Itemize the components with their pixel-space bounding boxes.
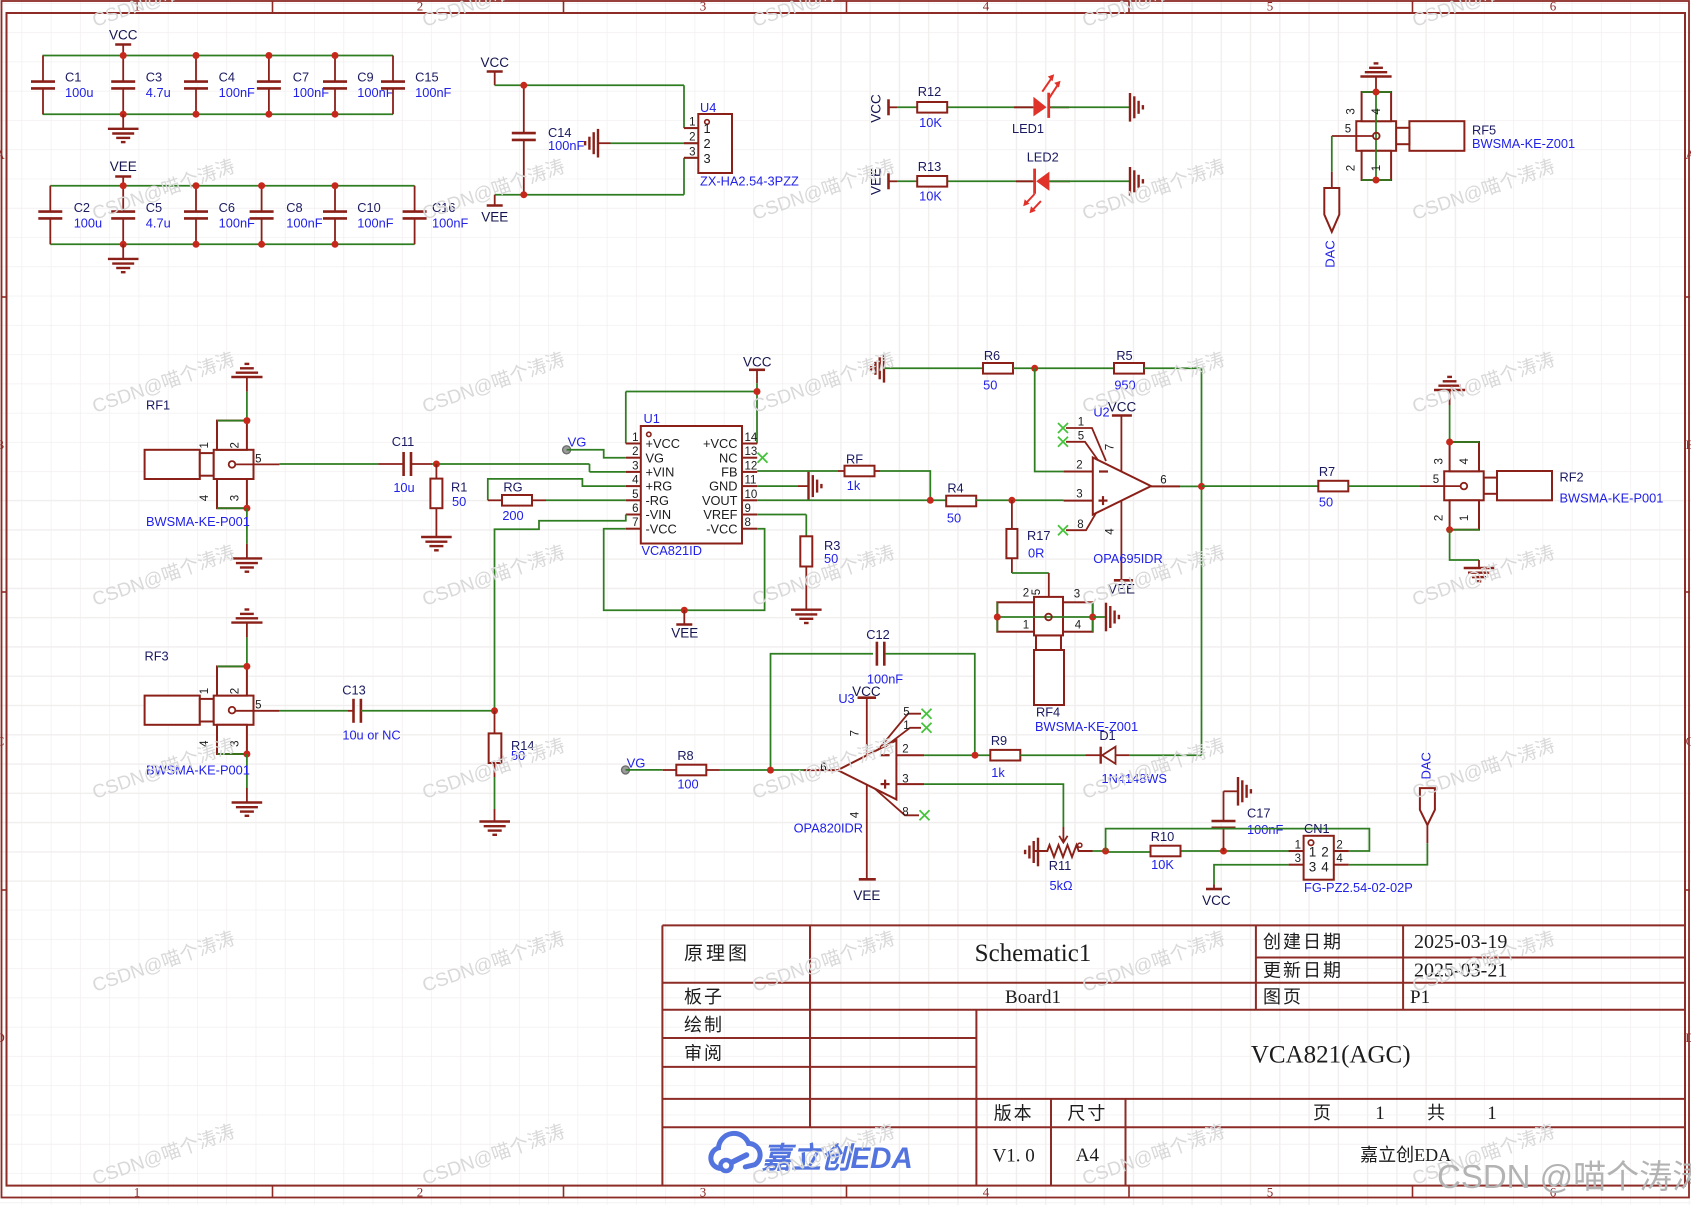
ground (VCC bank) — [122, 114, 124, 129]
capacitor C15 — [392, 56, 394, 82]
connector RF3 body — [145, 696, 200, 725]
svg-text:VCA821ID: VCA821ID — [642, 543, 702, 558]
svg-text:BWSMA-KE-Z001: BWSMA-KE-Z001 — [1035, 719, 1138, 734]
svg-text:CSDN@喵个涛涛: CSDN@喵个涛涛 — [419, 1120, 567, 1189]
resistor R6 — [983, 363, 1013, 374]
svg-text:100nF: 100nF — [548, 138, 584, 153]
svg-text:CSDN@喵个涛涛: CSDN@喵个涛涛 — [749, 927, 897, 996]
svg-text:ZX-HA2.54-3PZZ: ZX-HA2.54-3PZZ — [700, 174, 799, 189]
svg-text:R6: R6 — [984, 348, 1000, 363]
junction dots RF2 — [1446, 439, 1453, 446]
junction R8/C12 — [767, 767, 774, 774]
capacitor C5 — [122, 186, 124, 212]
RF2 pin5 circle — [1461, 483, 1468, 490]
svg-text:CSDN@喵个涛涛: CSDN@喵个涛涛 — [1079, 1120, 1227, 1189]
ground (C17) — [1237, 777, 1239, 806]
resistor R10 — [1151, 846, 1181, 857]
wire VCC rail top — [43, 55, 394, 57]
wire U1 VREF to R3 — [757, 514, 806, 516]
svg-text:7: 7 — [632, 517, 638, 529]
svg-text:10: 10 — [745, 489, 758, 501]
svg-text:原理图: 原理图 — [684, 944, 750, 965]
svg-text:CN1: CN1 — [1304, 821, 1330, 836]
wire VEE rail top — [50, 185, 414, 187]
potentiometer R11 — [1062, 827, 1064, 841]
svg-text:Board1: Board1 — [1005, 987, 1061, 1008]
no-connect U2 pins — [1058, 423, 1068, 433]
junction VOUT/RF — [927, 497, 934, 504]
net flag DAC (RF5) — [1331, 172, 1333, 188]
ground (LED1) — [1129, 93, 1131, 122]
svg-text:VOUT: VOUT — [702, 493, 738, 508]
svg-text:4.7u: 4.7u — [146, 216, 171, 231]
junction R4/R17 — [1008, 497, 1015, 504]
wire R6 node to U2 pin2 — [1035, 368, 1064, 471]
svg-text:100nF: 100nF — [219, 216, 255, 231]
power flag VCC (U3) — [858, 696, 877, 699]
svg-text:LED2: LED2 — [1027, 150, 1059, 165]
title block grid — [661, 925, 663, 1185]
ground (RF3 top) — [231, 621, 262, 623]
wire RF to VOUT — [880, 471, 930, 500]
svg-text:1: 1 — [903, 720, 909, 732]
svg-text:CSDN@喵个涛涛: CSDN@喵个涛涛 — [1079, 0, 1227, 32]
junction dots RF1 — [243, 417, 250, 424]
ground (R1) — [421, 536, 452, 538]
svg-text:VREF: VREF — [703, 507, 737, 522]
svg-text:CSDN@喵个涛涛: CSDN@喵个涛涛 — [1409, 0, 1557, 32]
svg-text:B: B — [0, 437, 5, 452]
svg-text:1: 1 — [1309, 845, 1317, 860]
svg-text:VCC: VCC — [1202, 893, 1231, 908]
wire C12 right — [885, 654, 975, 756]
svg-text:R8: R8 — [677, 748, 693, 763]
resistor R4 — [946, 496, 976, 507]
svg-text:Schematic1: Schematic1 — [975, 940, 1092, 967]
svg-text:A: A — [1685, 147, 1691, 162]
svg-text:更新日期: 更新日期 — [1263, 961, 1343, 981]
svg-text:5: 5 — [632, 489, 638, 501]
svg-text:CSDN@喵个涛涛: CSDN@喵个涛涛 — [89, 541, 237, 610]
svg-text:版本: 版本 — [994, 1104, 1034, 1124]
wire VCC to LED1 — [897, 106, 1033, 108]
capacitor C16 — [414, 186, 416, 212]
svg-text:FG-PZ2.54-02-02P: FG-PZ2.54-02-02P — [1304, 880, 1413, 895]
svg-text:3: 3 — [700, 1185, 707, 1200]
ground (RF1 bottom) — [246, 544, 248, 559]
RF3 pin5 stub — [235, 710, 279, 712]
svg-text:+VCC: +VCC — [646, 436, 681, 451]
connector RF2 body — [1497, 471, 1552, 500]
junction R11/R10 node — [1102, 848, 1109, 855]
svg-text:10u or NC: 10u or NC — [342, 728, 400, 743]
svg-text:CSDN @喵个涛涛: CSDN @喵个涛涛 — [1437, 1158, 1691, 1195]
svg-text:2: 2 — [632, 446, 638, 458]
wire U1 FB to RF — [757, 470, 838, 472]
svg-text:2: 2 — [229, 688, 241, 694]
RF4 pin5 circle — [1045, 614, 1052, 621]
LED LED1 — [1014, 106, 1033, 108]
RF5 pin5 circle — [1373, 133, 1380, 140]
svg-text:OPA820IDR: OPA820IDR — [794, 820, 863, 835]
wire VCC U1 — [756, 383, 758, 443]
svg-text:100nF: 100nF — [357, 216, 393, 231]
capacitor C8 — [261, 186, 263, 212]
wire CN1 pin3 to VCC — [1214, 865, 1289, 885]
svg-text:FB: FB — [721, 465, 737, 480]
svg-text:8: 8 — [745, 517, 751, 529]
svg-text:R7: R7 — [1319, 464, 1335, 479]
svg-text:2: 2 — [1076, 460, 1082, 472]
connector RF4 body — [1034, 650, 1064, 705]
net port VG (U3) — [622, 766, 630, 774]
svg-text:图页: 图页 — [1263, 987, 1303, 1007]
svg-text:C6: C6 — [219, 200, 235, 215]
svg-text:2: 2 — [417, 1185, 424, 1200]
svg-text:CSDN@喵个涛涛: CSDN@喵个涛涛 — [1079, 734, 1227, 803]
svg-text:审阅: 审阅 — [684, 1044, 724, 1064]
svg-text:2: 2 — [1023, 588, 1029, 600]
svg-text:C13: C13 — [342, 683, 365, 698]
svg-text:6: 6 — [1550, 0, 1557, 14]
svg-text:VG: VG — [568, 435, 587, 450]
svg-text:C15: C15 — [415, 70, 438, 85]
svg-text:VCC: VCC — [743, 355, 772, 370]
svg-text:U4: U4 — [700, 100, 716, 115]
svg-text:14: 14 — [745, 432, 758, 444]
svg-text:100nF: 100nF — [415, 85, 451, 100]
svg-text:R10: R10 — [1151, 829, 1174, 844]
svg-text:CSDN@喵个涛涛: CSDN@喵个涛涛 — [1409, 541, 1557, 610]
svg-text:5: 5 — [1267, 0, 1274, 14]
svg-text:3: 3 — [1345, 108, 1357, 114]
wire R10 to CN1 pin1 — [1182, 850, 1304, 852]
svg-text:4: 4 — [1321, 860, 1329, 875]
ground (VEE bank) — [122, 244, 124, 259]
svg-text:3: 3 — [902, 773, 908, 785]
svg-text:2: 2 — [902, 744, 908, 756]
svg-text:R13: R13 — [918, 159, 941, 174]
svg-text:3: 3 — [1295, 853, 1301, 865]
svg-text:1: 1 — [199, 688, 211, 694]
svg-text:5: 5 — [1345, 124, 1351, 136]
svg-text:1: 1 — [704, 121, 711, 136]
junction VCC U1 — [754, 388, 761, 395]
svg-text:-RG: -RG — [646, 493, 669, 508]
wire VG to U1 pin2 — [567, 450, 626, 458]
svg-text:100nF: 100nF — [1247, 822, 1283, 837]
svg-text:4: 4 — [632, 475, 639, 487]
svg-text:CSDN@喵个涛涛: CSDN@喵个涛涛 — [1079, 927, 1227, 996]
svg-text:8: 8 — [1077, 519, 1083, 531]
resistor R13 — [917, 176, 947, 187]
svg-text:板子: 板子 — [684, 987, 724, 1007]
wire U2 out — [1180, 485, 1202, 487]
svg-text:100: 100 — [677, 777, 698, 792]
wire RG to U1 pin4 — [488, 479, 626, 500]
junction dots VEE rail — [120, 182, 127, 189]
svg-text:RF: RF — [846, 452, 863, 467]
junction U3 pin2 — [972, 752, 979, 759]
svg-text:9: 9 — [745, 503, 751, 515]
wire gnd to U4 pin2 — [611, 142, 699, 144]
svg-text:5: 5 — [255, 699, 261, 711]
svg-text:C1: C1 — [65, 70, 81, 85]
svg-text:VCC: VCC — [480, 55, 509, 70]
svg-text:OPA695IDR: OPA695IDR — [1093, 551, 1162, 566]
junction dots RF5 — [1373, 89, 1380, 96]
svg-text:VCC: VCC — [869, 94, 884, 123]
wire R9 to D1 — [1020, 754, 1085, 756]
svg-text:100u: 100u — [65, 85, 93, 100]
svg-text:2: 2 — [689, 132, 695, 144]
svg-text:5: 5 — [1031, 589, 1043, 595]
power flag VEE (U1) — [683, 610, 685, 624]
wire LED2 to gnd — [1050, 180, 1130, 182]
power flag VEE (U2) — [1114, 579, 1133, 582]
capacitor C3 — [122, 56, 124, 82]
svg-text:6: 6 — [632, 503, 638, 515]
svg-text:1: 1 — [1375, 1103, 1385, 1124]
junction C14 top — [520, 82, 527, 89]
svg-text:2: 2 — [1434, 515, 1446, 521]
svg-text:A: A — [0, 147, 5, 162]
svg-text:13: 13 — [745, 446, 758, 458]
connector CN1 — [1304, 836, 1334, 880]
svg-text:R1: R1 — [451, 480, 467, 495]
wire gnd to R6 — [884, 367, 983, 369]
wire VEE to LED2 — [897, 180, 1032, 182]
svg-text:U3: U3 — [838, 691, 854, 706]
svg-text:5kΩ: 5kΩ — [1049, 878, 1073, 893]
no-connect U3 pins — [922, 709, 932, 719]
svg-text:C: C — [0, 734, 4, 749]
wire C12 left — [771, 654, 874, 770]
svg-text:1k: 1k — [847, 478, 861, 493]
wire U3 pin2 to R9 — [924, 754, 990, 756]
svg-text:B: B — [1686, 437, 1691, 452]
svg-text:4: 4 — [1105, 528, 1117, 535]
svg-text:D1: D1 — [1099, 728, 1115, 743]
power flag VCC (U2) — [1112, 414, 1132, 417]
svg-text:R11: R11 — [1049, 858, 1072, 873]
svg-text:4: 4 — [1075, 620, 1082, 632]
wire RF5 center — [1375, 92, 1377, 180]
svg-text:10K: 10K — [919, 115, 942, 130]
wire RF2 edges — [1450, 441, 1479, 443]
junction VEE U1 — [681, 607, 688, 614]
wire R11 to R10 — [1093, 850, 1106, 852]
svg-text:3: 3 — [689, 146, 695, 158]
wire RF3 top — [246, 637, 248, 666]
svg-text:1: 1 — [1487, 1103, 1497, 1124]
LED LED2 — [1016, 180, 1035, 182]
ground (R14) — [479, 820, 510, 822]
power flag VEE (U3) — [859, 878, 876, 881]
ground (RF2 bottom) — [1478, 560, 1480, 568]
svg-text:10u: 10u — [393, 480, 414, 495]
capacitor C12 — [875, 653, 878, 655]
wire U1 -VCC loop — [604, 529, 765, 611]
svg-text:2: 2 — [1345, 165, 1357, 171]
junction R6/R5 — [1031, 365, 1038, 372]
svg-text:50: 50 — [983, 377, 997, 392]
resistor R3 — [800, 536, 812, 566]
svg-text:4: 4 — [983, 1185, 990, 1200]
svg-text:4: 4 — [983, 0, 990, 14]
svg-text:+VCC: +VCC — [703, 436, 738, 451]
wire CN1 loop — [1106, 829, 1370, 851]
svg-text:VG: VG — [646, 450, 665, 465]
svg-text:7: 7 — [850, 730, 862, 736]
svg-text:VCA821(AGC): VCA821(AGC) — [1251, 1042, 1411, 1069]
svg-text:VG: VG — [627, 755, 646, 770]
RF1 pin5 stub — [235, 463, 279, 465]
junction U2 out — [1198, 483, 1205, 490]
wire RF1 bottom — [246, 508, 248, 544]
svg-text:共: 共 — [1427, 1103, 1445, 1123]
svg-text:CSDN@喵个涛涛: CSDN@喵个涛涛 — [419, 0, 567, 32]
capacitor C10 — [334, 186, 336, 212]
svg-text:1: 1 — [134, 1185, 141, 1200]
RF2 pin5 stub — [1419, 485, 1460, 487]
svg-text:3: 3 — [229, 495, 241, 501]
wire RF2 top — [1449, 405, 1451, 442]
svg-text:C12: C12 — [866, 627, 889, 642]
svg-text:RG: RG — [503, 480, 522, 495]
svg-text:2: 2 — [704, 136, 711, 151]
svg-text:4.7u: 4.7u — [146, 85, 171, 100]
svg-text:100nF: 100nF — [286, 216, 322, 231]
op-amp U3 OPA820IDR — [838, 740, 897, 799]
wire RF1 top — [246, 392, 248, 421]
svg-text:8: 8 — [902, 806, 908, 818]
resistor RF — [838, 470, 845, 472]
svg-text:10K: 10K — [1151, 857, 1174, 872]
svg-text:CSDN@喵个涛涛: CSDN@喵个涛涛 — [1409, 348, 1557, 417]
svg-text:R5: R5 — [1116, 348, 1132, 363]
resistor R7 — [1318, 481, 1348, 492]
ground (RF2 top) — [1434, 389, 1465, 391]
svg-text:C17: C17 — [1247, 806, 1270, 821]
svg-text:7: 7 — [1105, 444, 1117, 450]
svg-text:RF4: RF4 — [1036, 705, 1060, 720]
svg-text:2: 2 — [1336, 840, 1342, 852]
wire C11 to U1 pin3 — [432, 463, 590, 465]
wire R17 to RF4 — [1012, 572, 1049, 574]
svg-text:0R: 0R — [1028, 545, 1044, 560]
svg-text:-VCC: -VCC — [706, 521, 737, 536]
junction C14 bottom — [520, 191, 527, 198]
net flag DAC (CN1) — [1426, 825, 1428, 843]
capacitor C17 — [1223, 828, 1225, 851]
junction dots RF3 — [243, 663, 250, 670]
svg-text:12: 12 — [745, 460, 758, 472]
svg-text:C2: C2 — [74, 200, 90, 215]
svg-text:1: 1 — [199, 442, 211, 448]
wire RG to U1 pin5 — [546, 499, 626, 501]
svg-text:GND: GND — [709, 479, 737, 494]
svg-text:尺寸: 尺寸 — [1067, 1104, 1107, 1124]
ground (RF3 bottom) — [246, 788, 248, 803]
connector U4 — [698, 114, 732, 173]
ground (R3) — [791, 609, 822, 611]
svg-text:4: 4 — [1459, 458, 1471, 465]
svg-text:-VCC: -VCC — [646, 521, 677, 536]
svg-text:R12: R12 — [918, 84, 941, 99]
capacitor C2 — [49, 186, 51, 212]
svg-text:DAC: DAC — [1323, 240, 1338, 267]
svg-text:CSDN@喵个涛涛: CSDN@喵个涛涛 — [749, 0, 897, 32]
wire trunk to R7 — [1202, 485, 1319, 487]
svg-text:D: D — [0, 1030, 5, 1045]
junction C11/R1 — [433, 461, 440, 468]
capacitor C14 — [523, 85, 525, 133]
svg-text:LED1: LED1 — [1012, 121, 1044, 136]
diode D1 1N4148WS — [1085, 754, 1101, 756]
svg-text:CSDN@喵个涛涛: CSDN@喵个涛涛 — [419, 348, 567, 417]
svg-text:CSDN@喵个涛涛: CSDN@喵个涛涛 — [1079, 348, 1227, 417]
svg-text:VEE: VEE — [671, 626, 698, 641]
wire VG to R8 — [626, 769, 663, 771]
RF4 pin5 stub — [1048, 573, 1050, 614]
wire LED1 to gnd — [1051, 106, 1130, 108]
RF5 pin5 stub — [1332, 135, 1373, 137]
svg-text:RF2: RF2 — [1560, 470, 1584, 485]
resistor R5 — [1114, 363, 1144, 374]
connector RF1 body — [145, 450, 200, 479]
no-connect U1 pin13 — [758, 453, 768, 463]
resistor R12 — [917, 102, 947, 113]
svg-text:VCC: VCC — [109, 28, 138, 43]
svg-text:C9: C9 — [357, 70, 373, 85]
resistor R17 — [1011, 500, 1013, 529]
power flag VEE (R13) — [887, 173, 890, 189]
svg-text:VEE: VEE — [853, 888, 880, 903]
wire VCC rail bottom — [43, 113, 394, 115]
svg-text:V1. 0: V1. 0 — [993, 1146, 1035, 1167]
svg-text:R4: R4 — [947, 481, 963, 496]
svg-text:C8: C8 — [286, 200, 302, 215]
svg-text:3: 3 — [632, 460, 638, 472]
capacitor C11 — [379, 463, 404, 465]
svg-text:VCC: VCC — [852, 684, 881, 699]
svg-text:5: 5 — [1078, 430, 1084, 442]
svg-text:创建日期: 创建日期 — [1263, 932, 1343, 952]
svg-text:5: 5 — [1433, 474, 1439, 486]
svg-text:4: 4 — [850, 811, 862, 818]
svg-text:C: C — [1686, 734, 1691, 749]
svg-text:CSDN@喵个涛涛: CSDN@喵个涛涛 — [1409, 155, 1557, 224]
op-amp U2 OPA695IDR — [1093, 458, 1151, 515]
ground (LED2) — [1129, 167, 1131, 196]
svg-text:C10: C10 — [357, 200, 380, 215]
wire RF2 bottom — [1450, 530, 1479, 560]
svg-text:NC: NC — [719, 450, 737, 465]
svg-text:C7: C7 — [293, 70, 309, 85]
svg-text:3: 3 — [700, 0, 707, 14]
RF3 pin5 circle — [229, 707, 236, 714]
svg-text:4: 4 — [1336, 853, 1343, 865]
capacitor C1 — [42, 56, 44, 82]
svg-text:1k: 1k — [991, 765, 1005, 780]
svg-text:C3: C3 — [146, 70, 162, 85]
wire trunk vertical — [1201, 368, 1203, 755]
wire RF1 edges — [217, 420, 247, 422]
capacitor C13 — [348, 710, 354, 712]
wire R5 to trunk — [1144, 367, 1202, 369]
svg-text:CSDN@喵个涛涛: CSDN@喵个涛涛 — [1079, 155, 1227, 224]
